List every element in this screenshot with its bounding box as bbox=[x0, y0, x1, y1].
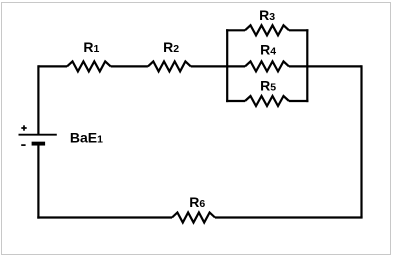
wire left vertical upper (battery + up to top) bbox=[37, 65, 39, 134]
resistor R2 bbox=[148, 61, 191, 71]
battery BaE1 positive plate bbox=[19, 134, 57, 136]
svg-text:R5: R5 bbox=[260, 78, 276, 94]
svg-text:R3: R3 bbox=[259, 7, 275, 23]
wire R2 to parallel bank node bbox=[191, 65, 245, 67]
wire R5 branch left bbox=[226, 100, 245, 102]
resistor R4 bbox=[245, 61, 289, 71]
battery BaE1 negative plate bbox=[32, 142, 45, 146]
svg-text:R6: R6 bbox=[189, 194, 205, 210]
wire right vertical bbox=[360, 65, 362, 217]
wire bank right vertical bbox=[306, 29, 308, 102]
wire left vertical lower (battery - down) bbox=[37, 144, 39, 219]
resistor R1 bbox=[67, 61, 111, 71]
wire bottom left (R6 to battery -) bbox=[37, 216, 172, 218]
battery plus sign bbox=[21, 125, 26, 130]
svg-text:R2: R2 bbox=[163, 39, 179, 55]
wire top-left horizontal (battery + to R1) bbox=[38, 65, 67, 67]
wire bank to right corner bbox=[289, 65, 362, 67]
resistor R5 bbox=[245, 96, 289, 106]
svg-text:R1: R1 bbox=[83, 39, 99, 55]
wire bottom right (right corner to R6) bbox=[215, 216, 363, 218]
wire bank left vertical bbox=[226, 29, 228, 102]
svg-text:R4: R4 bbox=[260, 42, 276, 58]
wire R5 branch right bbox=[289, 100, 308, 102]
wire R1 to R2 bbox=[111, 65, 148, 67]
wire R3 branch right bbox=[289, 29, 308, 31]
resistor R3 bbox=[245, 25, 289, 35]
wire R3 branch left bbox=[226, 29, 245, 31]
resistor R6 bbox=[172, 213, 215, 223]
battery minus sign bbox=[21, 144, 25, 146]
svg-text:BaE1: BaE1 bbox=[70, 130, 103, 146]
